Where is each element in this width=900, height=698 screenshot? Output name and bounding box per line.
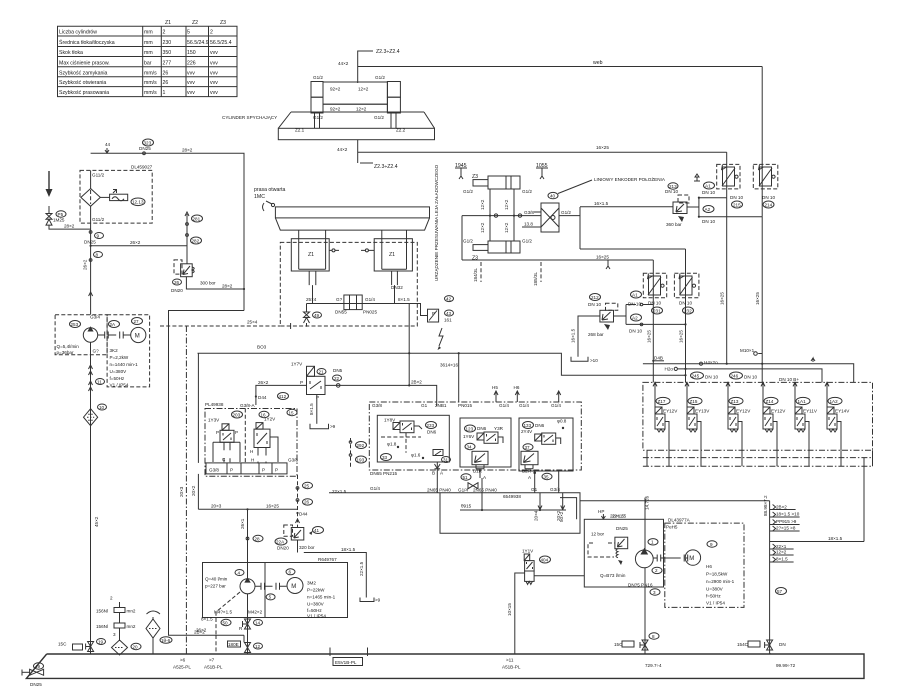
cylinder Z1 left xyxy=(291,230,329,285)
svg-text:DN 10 B+: DN 10 B+ xyxy=(779,377,799,382)
svg-text:G1/2: G1/2 xyxy=(313,75,323,80)
svg-text:1MC: 1MC xyxy=(254,194,265,200)
svg-text:p=36bar: p=36bar xyxy=(57,350,74,355)
svg-text:DN20: DN20 xyxy=(171,288,183,293)
svg-text:DN55: DN55 xyxy=(335,310,347,315)
svg-text:2N65 PN40: 2N65 PN40 xyxy=(427,488,451,493)
svg-text:20×3: 20×3 xyxy=(211,504,222,509)
svg-text:DN 10: DN 10 xyxy=(730,195,743,200)
svg-text:8: 8 xyxy=(652,634,655,639)
svg-text:U=380V: U=380V xyxy=(110,369,128,374)
svg-text:22: 22 xyxy=(334,376,340,381)
svg-text:G3/8-A: G3/8-A xyxy=(240,403,255,408)
svg-text:5: 5 xyxy=(269,595,272,600)
breather and filler units xyxy=(96,596,172,656)
svg-text:Q=5,4l/min: Q=5,4l/min xyxy=(57,344,80,349)
svg-text:DN32: DN32 xyxy=(391,285,403,290)
svg-text:>7: >7 xyxy=(209,658,215,663)
svg-text:Z15: Z15 xyxy=(690,399,698,404)
dashed wire 25x4 xyxy=(160,325,280,327)
svg-text:vvv: vvv xyxy=(187,80,195,86)
svg-text:16×25: 16×25 xyxy=(596,145,609,150)
svg-text:E5V1B-PL: E5V1B-PL xyxy=(335,660,357,665)
relief valve 268bar xyxy=(571,294,627,364)
svg-text:92×2: 92×2 xyxy=(330,87,341,92)
relief valve RV2 320bar xyxy=(275,525,381,603)
svg-text:320 bor: 320 bor xyxy=(299,545,315,550)
svg-text:Y3R: Y3R xyxy=(494,426,504,431)
svg-text:22A: 22A xyxy=(276,539,285,544)
svg-text:185/3L: 185/3L xyxy=(533,272,538,286)
svg-text:mn2: mn2 xyxy=(127,609,136,614)
svg-text:Z1: Z1 xyxy=(389,252,395,258)
svg-text:34: 34 xyxy=(467,444,473,449)
pump3 suction to tank xyxy=(614,568,648,654)
svg-text:6: 6 xyxy=(289,570,292,575)
svg-text:193: 193 xyxy=(357,457,365,462)
svg-text:vvv: vvv xyxy=(210,90,218,96)
svg-text:G1/2: G1/2 xyxy=(522,189,532,194)
parameter table xyxy=(58,20,238,97)
svg-text:DL459027: DL459027 xyxy=(131,165,153,170)
wires to right xyxy=(559,215,580,217)
svg-text:26×2: 26×2 xyxy=(258,380,269,385)
drain valve DN25b xyxy=(48,206,50,213)
svg-text:G1/2: G1/2 xyxy=(522,239,532,244)
valve 1Y7V xyxy=(291,362,343,401)
pump unit 2 xyxy=(203,557,348,619)
pump2 pressure wire xyxy=(240,509,263,578)
svg-text:D44: D44 xyxy=(258,395,267,400)
svg-text:G1/2: G1/2 xyxy=(313,115,323,120)
motor M1 xyxy=(131,327,146,342)
svg-text:15C: 15C xyxy=(614,642,623,647)
svg-text:H5: H5 xyxy=(492,385,498,390)
svg-text:123: 123 xyxy=(466,426,474,431)
svg-text:DN 10: DN 10 xyxy=(762,195,775,200)
svg-text:268 bar: 268 bar xyxy=(588,332,604,337)
svg-text:Q=B73 l/min: Q=B73 l/min xyxy=(600,573,626,578)
svg-text:12×2: 12×2 xyxy=(480,222,485,233)
svg-text:Z3: Z3 xyxy=(472,256,478,262)
svg-text:G1/2: G1/2 xyxy=(463,239,473,244)
svg-text:214: 214 xyxy=(765,202,773,207)
svg-text:G1/2: G1/2 xyxy=(375,75,385,80)
relief valve RV1 xyxy=(174,260,182,274)
svg-text:vvv: vvv xyxy=(187,70,195,76)
svg-text:27: 27 xyxy=(134,319,140,324)
svg-text:V1 / IP54: V1 / IP54 xyxy=(110,383,129,388)
svg-text:M: M xyxy=(689,556,694,562)
svg-text:U=380V: U=380V xyxy=(307,602,325,607)
svg-text:1Y2V: 1Y2V xyxy=(264,417,276,422)
svg-text:184/3L: 184/3L xyxy=(473,268,478,282)
svg-text:G3/8: G3/8 xyxy=(288,458,298,463)
shutoff valve pump1 line xyxy=(58,639,106,652)
svg-text:Z1: Z1 xyxy=(165,20,171,26)
svg-text:HP: HP xyxy=(598,509,604,514)
svg-text:14: 14 xyxy=(255,620,261,625)
solenoid valve 1Y1V lower middle xyxy=(507,549,584,655)
pilot group manifold xyxy=(206,409,298,474)
wire supply to pilot group manifold xyxy=(197,353,199,463)
svg-text:12,13: 12,13 xyxy=(132,200,144,205)
svg-text:5: 5 xyxy=(187,30,190,36)
motor M3 xyxy=(685,550,700,565)
wire web xyxy=(358,66,763,68)
drain valve left of press xyxy=(306,304,308,327)
svg-text:12×2: 12×2 xyxy=(358,87,369,92)
flow control valve top 2 xyxy=(753,67,778,217)
svg-text:215: 215 xyxy=(733,202,741,207)
svg-text:DN20: DN20 xyxy=(277,546,289,551)
leak line dashed to tank xyxy=(179,326,186,654)
svg-text:G3/8: G3/8 xyxy=(372,403,382,408)
svg-text:EY12V: EY12V xyxy=(663,409,678,414)
svg-text:web: web xyxy=(593,60,603,66)
pump P3 xyxy=(635,550,653,568)
svg-text:Z13: Z13 xyxy=(731,399,739,404)
svg-text:16×1.5: 16×1.5 xyxy=(594,201,609,206)
svg-text:1Y3V: 1Y3V xyxy=(208,418,220,423)
pump unit 1 xyxy=(55,315,150,388)
svg-text:44×2: 44×2 xyxy=(338,61,349,66)
drain collector under block xyxy=(329,478,770,551)
svg-text:3M2: 3M2 xyxy=(307,581,316,586)
svg-text:49: 49 xyxy=(35,664,41,669)
valve unit 2 xyxy=(685,382,710,450)
svg-text:f=50Hz: f=50Hz xyxy=(110,376,125,381)
svg-text:281: 281 xyxy=(193,216,201,221)
svg-text:18×1.5: 18×1.5 xyxy=(828,536,843,541)
svg-text:P=2,2kW: P=2,2kW xyxy=(110,355,129,360)
svg-text:2NB1: 2NB1 xyxy=(435,403,447,408)
junction wires to valve bank xyxy=(643,356,854,383)
svg-text:35: 35 xyxy=(544,474,550,479)
svg-text:DN6: DN6 xyxy=(477,426,487,431)
gauges A1 A2 on lower branch xyxy=(626,291,687,334)
svg-text:12 bor: 12 bor xyxy=(591,532,604,537)
svg-text:44: 44 xyxy=(105,142,111,147)
Z3 cylinders group xyxy=(455,163,686,286)
valve unit 5 xyxy=(793,382,818,450)
svg-text:50: 50 xyxy=(223,620,229,625)
pump1 outlet down with check valve xyxy=(84,342,107,654)
filter F1 xyxy=(81,189,100,207)
svg-text:12×2: 12×2 xyxy=(356,107,367,112)
svg-text:2: 2 xyxy=(210,30,213,36)
wire 28x2 from 1Y7V to block xyxy=(325,353,437,406)
svg-text:M10×1: M10×1 xyxy=(740,348,755,353)
coupling xyxy=(98,332,131,339)
svg-text:P: P xyxy=(275,468,278,473)
svg-text:P: P xyxy=(216,430,219,435)
svg-text:231: 231 xyxy=(653,308,661,313)
svg-text:1Y1V: 1Y1V xyxy=(522,549,534,554)
svg-text:2N65 PN40: 2N65 PN40 xyxy=(473,488,497,493)
svg-text:56.5/24.9: 56.5/24.9 xyxy=(187,40,209,46)
svg-text:26×2: 26×2 xyxy=(196,628,207,633)
svg-text:9: 9 xyxy=(97,233,100,238)
pump P2 xyxy=(240,579,255,594)
pilot dotted from block to relief2 xyxy=(296,475,313,528)
svg-text:28×2: 28×2 xyxy=(64,224,75,229)
dashed enclosure press xyxy=(280,242,417,326)
svg-text:729.7÷4: 729.7÷4 xyxy=(645,663,662,668)
svg-text:2B×2: 2B×2 xyxy=(411,380,422,385)
svg-text:1Y8V: 1Y8V xyxy=(384,418,396,423)
svg-text:G1/2: G1/2 xyxy=(463,189,473,194)
svg-text:26×1: 26×1 xyxy=(240,518,245,529)
svg-text:H6: H6 xyxy=(706,564,712,569)
relief valve 360bar xyxy=(665,183,699,227)
svg-text:246: 246 xyxy=(731,373,739,378)
cylinder Z1 right xyxy=(374,230,412,285)
gauges A1 A2 xyxy=(694,174,762,224)
svg-text:56.5/25.4: 56.5/25.4 xyxy=(210,40,232,46)
svg-text:28: 28 xyxy=(255,536,261,541)
svg-text:DN25: DN25 xyxy=(616,526,628,531)
svg-text:Z17: Z17 xyxy=(658,399,666,404)
svg-text:P=22kW: P=22kW xyxy=(307,588,325,593)
svg-text:φ1.6: φ1.6 xyxy=(411,453,421,458)
svg-text:vvv: vvv xyxy=(187,90,195,96)
pilot check valve block xyxy=(522,203,559,232)
svg-text:mn2: mn2 xyxy=(127,624,136,629)
top left supply wire 28x2 xyxy=(91,139,244,311)
svg-text:245: 245 xyxy=(692,373,700,378)
svg-text:G?: G? xyxy=(93,349,100,354)
svg-text:D44: D44 xyxy=(299,512,308,517)
svg-text:1: 1 xyxy=(651,540,654,545)
svg-text:DN 10: DN 10 xyxy=(744,375,757,380)
press beam xyxy=(275,207,429,230)
svg-text:vvv: vvv xyxy=(210,60,218,66)
svg-text:>11: >11 xyxy=(506,658,514,663)
svg-text:25×4: 25×4 xyxy=(247,320,258,325)
svg-text:p=227 bar: p=227 bar xyxy=(205,584,226,589)
svg-text:22×1.5: 22×1.5 xyxy=(359,561,364,576)
svg-text:V1 / IP54: V1 / IP54 xyxy=(706,601,725,606)
svg-text:323: 323 xyxy=(144,140,152,145)
svg-text:n=1440 min-1: n=1440 min-1 xyxy=(110,362,139,367)
left pilot valve group xyxy=(205,402,297,476)
valve unit 1 xyxy=(653,382,678,450)
svg-text:18×1.5: 18×1.5 xyxy=(341,547,356,552)
svg-text:G1/4: G1/4 xyxy=(365,297,375,302)
svg-text:3K2: 3K2 xyxy=(110,348,119,353)
svg-text:12×2: 12×2 xyxy=(504,222,509,233)
svg-text:2A: 2A xyxy=(110,322,117,327)
wire 26x2 from 1Y7V xyxy=(255,380,307,405)
tank drain valve DN25 xyxy=(22,663,44,687)
svg-text:133: 133 xyxy=(524,423,532,428)
svg-text:DN 10: DN 10 xyxy=(702,219,715,224)
svg-text:3: 3 xyxy=(113,632,116,637)
svg-text:25: 25 xyxy=(304,483,310,488)
svg-text:1Y6V: 1Y6V xyxy=(463,434,475,439)
cylinder body Z2 xyxy=(311,82,400,129)
valve 1Y3V xyxy=(208,418,240,463)
svg-text:Z2.3÷Z2.4: Z2.3÷Z2.4 xyxy=(374,164,398,170)
svg-text:P5: P5 xyxy=(58,212,64,217)
svg-text:360 bar: 360 bar xyxy=(666,222,682,227)
svg-text:mm: mm xyxy=(144,50,153,56)
svg-text:H6: H6 xyxy=(514,385,520,390)
svg-text:A51B-PL: A51B-PL xyxy=(502,665,521,670)
svg-text:1A2: 1A2 xyxy=(830,399,839,404)
svg-text:A1: A1 xyxy=(632,292,638,297)
svg-text:PeH5: PeH5 xyxy=(666,525,678,530)
svg-text:10×15: 10×15 xyxy=(507,603,512,616)
svg-text:H: H xyxy=(251,458,254,463)
wire 16x25 xyxy=(358,151,727,153)
svg-text:232: 232 xyxy=(684,308,692,313)
svg-text:404: 404 xyxy=(541,557,549,562)
valve unit 6 xyxy=(825,382,850,450)
svg-text:1Y7V: 1Y7V xyxy=(291,362,303,367)
svg-text:DN6: DN6 xyxy=(535,423,545,428)
svg-text:B1R: B1R xyxy=(473,469,483,474)
svg-text:G11/2: G11/2 xyxy=(92,173,105,178)
svg-text:φ0.8: φ0.8 xyxy=(557,419,567,424)
svg-text:DN25: DN25 xyxy=(139,146,151,151)
svg-text:161: 161 xyxy=(444,318,452,323)
svg-text:1M25: 1M25 xyxy=(53,218,65,223)
svg-text:G1/2: G1/2 xyxy=(561,210,571,215)
svg-text:16×25: 16×25 xyxy=(596,255,609,260)
svg-text:BO3: BO3 xyxy=(257,345,267,350)
svg-text:DN5: DN5 xyxy=(333,368,343,373)
svg-text:350: 350 xyxy=(163,50,172,56)
wire pump1 supply xyxy=(83,223,188,315)
svg-text:2: 2 xyxy=(655,568,658,573)
svg-text:H: H xyxy=(250,449,253,454)
svg-text:11: 11 xyxy=(97,379,102,384)
svg-text:26×2: 26×2 xyxy=(83,259,88,270)
block section 2 xyxy=(460,418,511,489)
svg-text:G1/4: G1/4 xyxy=(499,403,509,408)
svg-text:>6: >6 xyxy=(180,658,186,663)
svg-text:G1/4: G1/4 xyxy=(551,403,561,408)
svg-text:DN 10: DN 10 xyxy=(705,375,718,380)
svg-text:20×4: 20×4 xyxy=(534,510,539,521)
svg-text:25×4: 25×4 xyxy=(306,297,317,302)
main pressure wire from press to block xyxy=(198,352,687,402)
svg-text:vvv: vvv xyxy=(210,80,218,86)
svg-text:156Nl: 156Nl xyxy=(96,609,108,614)
svg-text:CYLINDER SPYCHAJĄCY: CYLINDER SPYCHAJĄCY xyxy=(222,115,277,120)
svg-text:1A1: 1A1 xyxy=(798,399,807,404)
base of pusher press xyxy=(278,112,434,140)
svg-text:42: 42 xyxy=(446,296,452,301)
svg-text:12: 12 xyxy=(255,644,261,649)
svg-text:8×1.5: 8×1.5 xyxy=(398,297,410,302)
svg-text:300 bor: 300 bor xyxy=(200,281,216,286)
svg-text:230: 230 xyxy=(163,40,172,46)
central valve block DN65 xyxy=(369,385,581,470)
svg-text:H4×2o: H4×2o xyxy=(704,360,718,365)
svg-text:vvv: vvv xyxy=(210,50,218,56)
svg-text:Liczba cylindrów: Liczba cylindrów xyxy=(59,30,97,36)
svg-text:8: 8 xyxy=(96,252,99,257)
svg-text:P: P xyxy=(432,311,435,316)
encoder callout xyxy=(548,192,558,198)
svg-text:9: 9 xyxy=(710,542,713,547)
svg-text:prasa otwarta: prasa otwarta xyxy=(254,187,286,193)
svg-text:8×1.5: 8×1.5 xyxy=(776,557,788,562)
svg-text:44×2: 44×2 xyxy=(337,147,348,152)
svg-text:M42×2: M42×2 xyxy=(248,610,263,615)
bypass valve xyxy=(100,196,110,198)
svg-text:Z2.3÷Z2.4: Z2.3÷Z2.4 xyxy=(376,49,400,55)
svg-text:Q=40 l/min: Q=40 l/min xyxy=(205,577,228,582)
flow control valve lower 2 xyxy=(674,249,699,382)
svg-text:DN 10: DN 10 xyxy=(679,301,692,306)
svg-text:Szybkość otwierania: Szybkość otwierania xyxy=(59,80,106,86)
block section 1 xyxy=(377,415,450,492)
svg-text:G11/2: G11/2 xyxy=(92,217,105,222)
wire 20x3 manifold to pump2 xyxy=(198,504,297,511)
svg-text:40: 40 xyxy=(550,193,556,198)
svg-text:Z3: Z3 xyxy=(220,20,226,26)
svg-text:13.8: 13.8 xyxy=(524,222,533,227)
svg-text:43: 43 xyxy=(446,311,452,316)
lightning symbol xyxy=(439,328,443,346)
wire to web line xyxy=(358,51,373,83)
wire valve bank drain 18x1.5 xyxy=(863,458,865,542)
svg-text:G3/8: G3/8 xyxy=(524,210,534,215)
svg-text:16×1.5: 16×1.5 xyxy=(571,328,576,343)
svg-text:277: 277 xyxy=(163,60,172,66)
svg-text:16×25: 16×25 xyxy=(720,292,725,305)
svg-text:D4B: D4B xyxy=(654,356,663,361)
svg-text:15C: 15C xyxy=(58,642,67,647)
svg-text:DN6: DN6 xyxy=(427,430,437,435)
block bottom labels xyxy=(370,486,560,509)
svg-text:A525-PL: A525-PL xyxy=(173,665,191,670)
svg-text:A2: A2 xyxy=(632,315,638,320)
valve bank of 6 solenoid valves xyxy=(643,382,873,466)
svg-text:28×2: 28×2 xyxy=(182,148,193,153)
pump2 suction and drains xyxy=(196,592,263,654)
relief valve 300bar line xyxy=(171,212,245,293)
svg-text:θ915: θ915 xyxy=(461,504,472,509)
drain dotted with ovals right of pilot group xyxy=(349,438,366,468)
cylinder Z3 top xyxy=(473,176,520,189)
coupling xyxy=(653,555,688,562)
svg-text:A51B-PL: A51B-PL xyxy=(204,665,223,670)
tank bus xyxy=(26,648,864,679)
svg-text:G1/4: G1/4 xyxy=(370,486,380,491)
svg-text:150: 150 xyxy=(187,50,196,56)
svg-text:12×2: 12×2 xyxy=(480,199,485,210)
svg-text:12×2: 12×2 xyxy=(504,199,509,210)
svg-text:22×1.5: 22×1.5 xyxy=(610,514,625,519)
svg-text:Z3: Z3 xyxy=(472,174,478,180)
svg-text:Z14: Z14 xyxy=(766,399,774,404)
svg-text:M: M xyxy=(291,584,296,590)
svg-text:45×2: 45×2 xyxy=(94,516,99,527)
svg-text:212: 212 xyxy=(591,295,599,300)
svg-text:PL49938: PL49938 xyxy=(205,402,224,407)
svg-text:LINIOWY ENKODER POŁOŻENIA: LINIOWY ENKODER POŁOŻENIA xyxy=(594,176,666,182)
svg-text:226: 226 xyxy=(187,60,196,66)
svg-text:mm/s: mm/s xyxy=(144,80,157,86)
svg-text:Skok tłoka: Skok tłoka xyxy=(59,50,83,56)
svg-text:2: 2 xyxy=(110,596,113,601)
svg-text:20×2: 20×2 xyxy=(191,485,196,496)
